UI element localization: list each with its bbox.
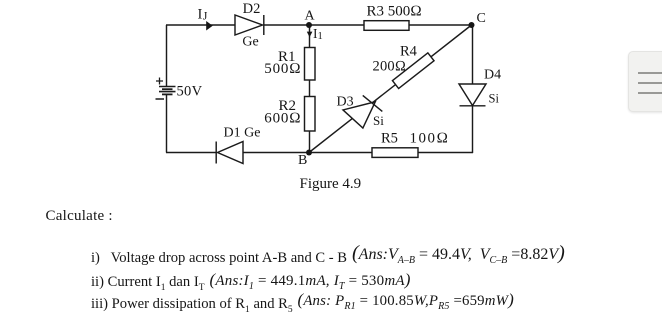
diode D3 (Si) on diagonal — [343, 91, 383, 131]
svg-text:200Ω: 200Ω — [373, 59, 407, 75]
node B — [306, 150, 312, 156]
resistor R1 — [305, 48, 316, 81]
svg-text:B: B — [298, 153, 307, 168]
svg-text:IJ: IJ — [198, 7, 208, 23]
diode D2 (Ge) — [235, 15, 264, 35]
battery V1 50V — [156, 78, 176, 100]
wire left bottom (battery - to bottom-left corner) — [166, 95, 168, 153]
wire top: corner to D2 anode — [166, 24, 235, 26]
wire top: D2 cathode to node A — [264, 24, 310, 26]
svg-text:Si: Si — [373, 113, 384, 128]
svg-text:D4: D4 — [484, 68, 501, 83]
wire bottom: R5 to node B — [309, 152, 372, 154]
wire right: node C to D4 anode — [472, 25, 474, 84]
diode D1 (Ge) — [216, 142, 243, 164]
node A — [306, 22, 312, 28]
resistor R2 — [305, 97, 316, 132]
svg-text:D1 Ge: D1 Ge — [224, 126, 261, 141]
text item i — [91, 250, 347, 267]
svg-text:R5100Ω: R5100Ω — [381, 131, 450, 147]
svg-text:600Ω: 600Ω — [264, 111, 301, 127]
wire top: R3 to node C — [409, 24, 472, 26]
wire diagonal: node B to node C — [309, 25, 472, 153]
svg-text:R4: R4 — [400, 44, 418, 60]
answer ii — [210, 270, 411, 292]
node C — [469, 22, 475, 28]
text item ii — [91, 274, 205, 293]
svg-text:C: C — [477, 11, 486, 26]
wire middle: node A to R1 — [309, 25, 311, 48]
answer iii — [298, 290, 514, 312]
wire middle: R2 to node B — [309, 131, 311, 153]
resistor R3 — [364, 21, 409, 31]
diode D4 (Si) — [459, 84, 486, 106]
wire top: node A to R3 — [309, 24, 364, 26]
svg-text:I1: I1 — [313, 26, 323, 42]
side menu tab — [628, 51, 662, 113]
svg-text:R3 500Ω: R3 500Ω — [367, 4, 422, 20]
answer i — [352, 242, 565, 266]
svg-text:50V: 50V — [177, 84, 203, 100]
svg-text:Ge: Ge — [242, 35, 258, 50]
resistor R4 on diagonal — [392, 53, 434, 89]
svg-text:D2: D2 — [243, 1, 261, 17]
text item iii — [91, 296, 293, 315]
wire bottom: corner to R5 — [418, 152, 473, 154]
svg-text:D3: D3 — [337, 95, 354, 110]
caption Figure 4.9 — [300, 176, 362, 193]
svg-text:Si: Si — [489, 92, 500, 106]
text Calculate — [46, 208, 113, 225]
svg-text:500Ω: 500Ω — [264, 61, 301, 77]
current arrow I1 — [307, 32, 313, 38]
svg-text:A: A — [304, 9, 315, 24]
wire bottom: D1 cathode to left corner — [166, 152, 216, 154]
wire right: D4 cathode to bottom-right corner — [472, 106, 474, 153]
wire left top (battery + to top-left corner) — [166, 25, 168, 87]
wire middle: R1 to R2 — [309, 80, 311, 97]
resistor R5 — [372, 148, 418, 158]
current arrow IJ — [206, 21, 213, 31]
wire bottom: node B to D1 anode — [243, 152, 309, 154]
